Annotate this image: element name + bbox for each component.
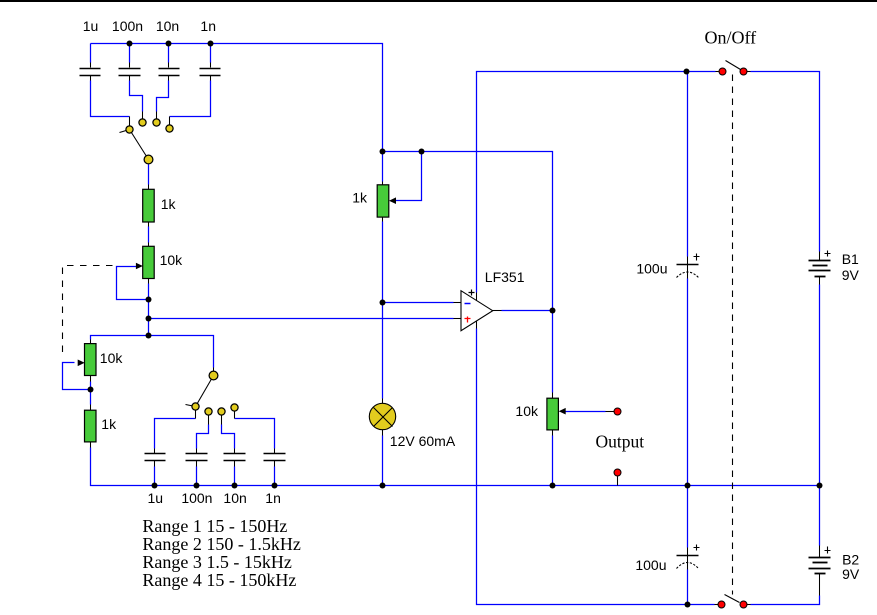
svg-text:1k: 1k [161, 196, 177, 212]
svg-text:100n: 100n [181, 490, 212, 506]
svg-text:10k: 10k [160, 252, 184, 268]
svg-text:On/Off: On/Off [705, 27, 757, 47]
svg-text:1k: 1k [101, 416, 117, 432]
svg-text:100u: 100u [636, 261, 667, 277]
svg-text:Range 1 15 - 150Hz: Range 1 15 - 150Hz [142, 516, 287, 536]
svg-text:Range 4 15 - 150kHz: Range 4 15 - 150kHz [142, 570, 296, 590]
svg-text:1n: 1n [265, 490, 281, 506]
svg-text:Output: Output [596, 431, 645, 451]
svg-text:100n: 100n [112, 18, 143, 34]
svg-text:1n: 1n [200, 18, 216, 34]
svg-text:10k: 10k [515, 403, 539, 419]
svg-text:Range 2 150 - 1.5kHz: Range 2 150 - 1.5kHz [142, 534, 300, 554]
svg-text:100u: 100u [635, 557, 666, 573]
svg-text:10n: 10n [156, 18, 179, 34]
svg-text:10n: 10n [223, 490, 246, 506]
svg-text:LF351: LF351 [485, 269, 525, 285]
svg-text:9V: 9V [842, 566, 860, 582]
svg-text:10k: 10k [100, 350, 124, 366]
svg-text:B1: B1 [842, 251, 859, 267]
svg-text:1k: 1k [352, 190, 368, 206]
svg-text:1u: 1u [148, 490, 164, 506]
svg-text:1u: 1u [83, 18, 99, 34]
svg-text:12V 60mA: 12V 60mA [390, 433, 456, 449]
svg-text:Range 3 1.5 - 15kHz: Range 3 1.5 - 15kHz [142, 552, 291, 572]
svg-text:9V: 9V [842, 267, 860, 283]
